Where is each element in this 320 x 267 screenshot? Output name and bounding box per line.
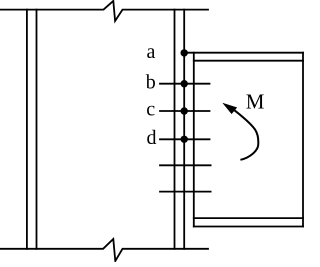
column right flange outer line [183, 10, 185, 249]
beam end plate [193, 53, 195, 227]
bolt b [181, 80, 188, 87]
bolt row b line [160, 83, 210, 85]
svg-text:d: d [147, 127, 157, 149]
beam bottom flange lower line [194, 226, 303, 228]
bolt c [181, 107, 188, 114]
bolt row 5 line [160, 164, 211, 166]
bolt row c line [160, 110, 210, 112]
column right flange inner line [174, 10, 176, 249]
svg-text:b: b [146, 72, 156, 94]
svg-text:M: M [246, 90, 265, 114]
beam top flange lower line [194, 60, 303, 62]
bolt row 6 line [160, 191, 211, 193]
column bottom break line with zigzag [0, 239, 208, 261]
moment arrowhead [223, 103, 237, 114]
bolt row d line [160, 138, 210, 140]
bolt a [181, 49, 188, 56]
beam right edge [302, 53, 304, 227]
column top break line with zigzag [0, 1, 208, 21]
column left flange inner line [36, 10, 38, 249]
beam bottom flange upper line [194, 217, 303, 219]
bolt d [181, 136, 188, 143]
moment arrow arc [235, 110, 259, 160]
beam top flange upper line (row a) [184, 52, 303, 54]
svg-text:a: a [147, 41, 156, 63]
column left flange outer line [26, 10, 28, 249]
svg-text:c: c [146, 99, 155, 121]
